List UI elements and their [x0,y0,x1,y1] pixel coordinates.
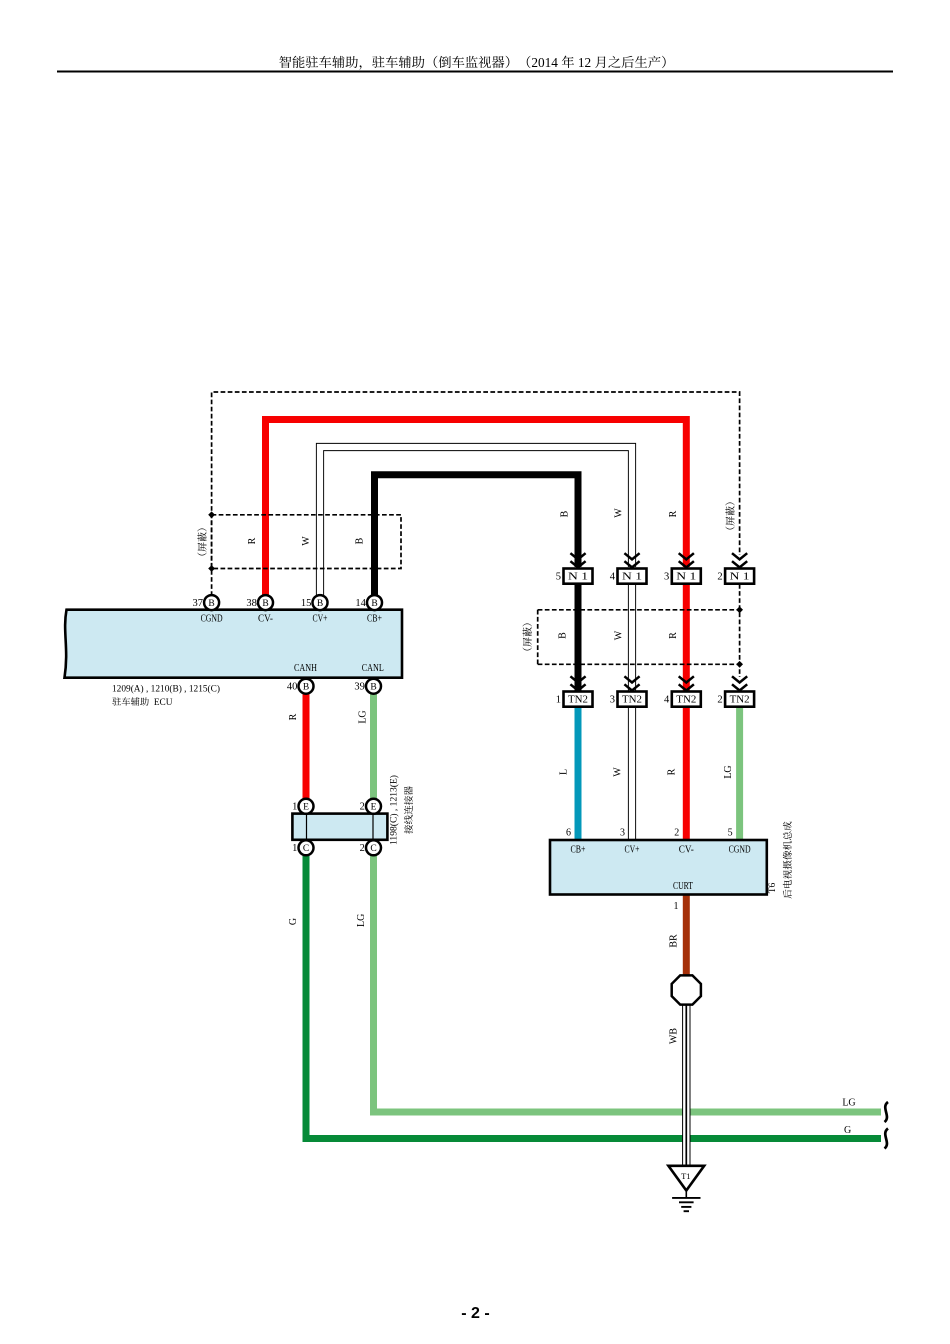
svg-text:R: R [668,510,679,517]
svg-text:LG: LG [357,710,368,723]
svg-text:CV+: CV+ [625,845,640,856]
svg-text:B: B [558,632,569,639]
svg-text:5: 5 [556,572,561,583]
svg-text:CANH: CANH [294,663,317,674]
svg-text:2: 2 [717,572,722,583]
svg-text:CV-: CV- [679,845,694,856]
svg-text:1: 1 [292,843,297,854]
svg-text:R: R [247,537,258,544]
svg-text:N 1: N 1 [730,572,750,583]
svg-text:W: W [614,630,625,640]
svg-text:15: 15 [301,598,312,609]
svg-text:3: 3 [664,572,669,583]
svg-text:2: 2 [360,802,365,813]
svg-text:2: 2 [674,828,679,839]
svg-text:B: B [208,599,214,609]
svg-text:W: W [612,767,623,777]
svg-text:G: G [288,918,299,925]
svg-text:CB+: CB+ [571,845,586,856]
svg-text:B: B [371,599,377,609]
svg-text:R: R [288,713,299,720]
svg-text:38: 38 [246,598,257,609]
svg-text:B: B [559,510,570,517]
svg-text:R: R [668,632,679,639]
svg-text:CURT: CURT [673,881,693,892]
svg-text:37: 37 [193,598,204,609]
svg-text:2: 2 [717,695,722,706]
svg-text:TN2: TN2 [730,695,750,706]
svg-text:B: B [370,683,376,693]
svg-text:BR: BR [668,934,679,948]
svg-text:5: 5 [728,828,733,839]
svg-text:T6: T6 [768,882,778,893]
svg-text:E: E [303,803,309,813]
svg-text:G: G [844,1125,851,1136]
svg-text:2: 2 [360,843,365,854]
svg-text:N 1: N 1 [622,572,642,583]
svg-text:B: B [355,537,366,544]
svg-text:1198(C) , 1213(E): 1198(C) , 1213(E) [389,775,400,845]
svg-text:40: 40 [287,682,298,693]
svg-text:CGND: CGND [729,845,751,856]
svg-text:14: 14 [355,598,366,609]
svg-text:6: 6 [566,828,571,839]
svg-text:1: 1 [674,901,679,912]
svg-text:W: W [301,536,312,546]
svg-text:LG: LG [723,765,734,778]
svg-text:B: B [262,599,268,609]
svg-text:B: B [317,599,323,609]
svg-text:2014: 2014 [531,55,558,70]
svg-text:TN2: TN2 [676,695,696,706]
svg-text:4: 4 [610,572,616,583]
svg-text:WB: WB [668,1028,679,1044]
svg-text:C: C [303,844,309,854]
svg-text:3: 3 [620,828,625,839]
svg-text:CV+: CV+ [313,614,328,625]
svg-text:C: C [370,844,376,854]
svg-text:LG: LG [356,914,367,927]
svg-text:LG: LG [842,1098,855,1109]
svg-text:TN2: TN2 [568,695,588,706]
svg-text:T1: T1 [681,1171,690,1181]
svg-text:N 1: N 1 [568,572,588,583]
svg-text:CANL: CANL [362,663,384,674]
svg-text:CGND: CGND [201,614,223,625]
svg-text:3: 3 [610,695,615,706]
svg-text:N 1: N 1 [676,572,696,583]
svg-text:CV-: CV- [258,614,273,625]
svg-text:ECU: ECU [154,698,173,708]
svg-text:1209(A) , 1210(B) , 1215(C): 1209(A) , 1210(B) , 1215(C) [112,684,220,695]
svg-text:B: B [303,683,309,693]
svg-text:4: 4 [664,695,670,706]
svg-text:TN2: TN2 [622,695,642,706]
svg-text:39: 39 [354,682,365,693]
svg-text:1: 1 [292,802,297,813]
svg-text:1: 1 [556,695,561,706]
svg-text:R: R [667,768,678,775]
svg-text:W: W [613,508,624,518]
svg-text:CB+: CB+ [367,614,382,625]
svg-text:- 2 -: - 2 - [461,1305,489,1322]
svg-text:12: 12 [578,55,591,70]
svg-text:E: E [371,803,377,813]
svg-text:L: L [559,769,570,775]
